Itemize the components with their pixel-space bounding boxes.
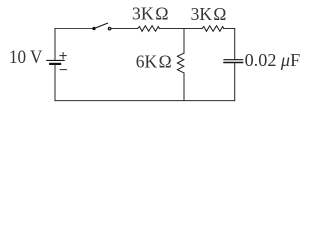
wire middle branch upper (node A down to R3) [183,29,185,54]
wire top rail from R2 to right corner [224,28,235,30]
battery V1 plus sign [60,53,66,59]
label capacitor value 0.02 uF [245,50,301,70]
wire left branch upper (top corner to battery) [54,29,56,60]
wire right branch lower [234,63,236,100]
label R2 value 3KOhm [191,4,227,24]
wire top rail left segment [55,28,94,30]
wire top rail from R1 to R2 (through node A) [159,28,202,30]
wire bottom rail [55,100,235,102]
wire middle branch lower (R3 down to bottom rail node B) [183,73,185,101]
svg-text:10 V: 10 V [9,48,43,68]
switch S1 pivot dot [92,27,95,30]
wire right branch upper (to capacitor) [234,29,236,60]
battery V1 positive long plate [47,59,64,61]
capacitor C1 bottom plate [224,62,243,64]
svg-text:3K Ω: 3K Ω [132,3,169,23]
svg-text:6K Ω: 6K Ω [136,51,172,71]
resistor R3 vertical zigzag [177,53,184,73]
capacitor C1 top plate [224,59,243,61]
switch S1 blade [94,23,108,28]
wire left branch lower (battery to bottom corner) [54,65,56,101]
label R3 value 6KOhm [136,51,172,71]
switch S1 open terminal dot [108,27,111,30]
label battery value 10 V [9,48,43,68]
svg-text:3K Ω: 3K Ω [191,4,227,24]
label R1 value 3KOhm [132,3,169,23]
wire top rail from switch to R1 [111,28,137,30]
svg-text:0.02 μF: 0.02 μF [245,50,301,70]
battery V1 negative short plate [50,63,60,65]
resistor R1 zigzag [138,26,160,32]
battery V1 minus sign [60,69,66,71]
resistor R2 zigzag [202,26,224,32]
